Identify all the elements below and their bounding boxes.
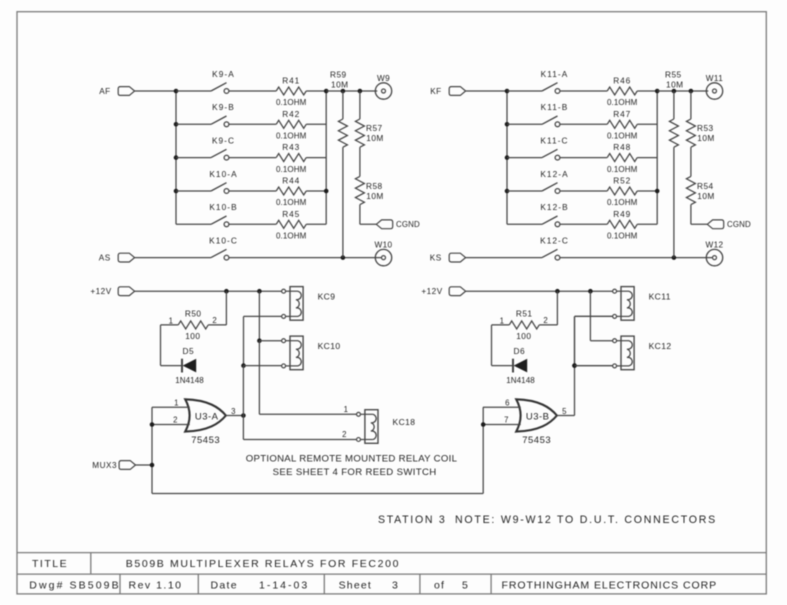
svg-text:W11: W11 <box>706 74 723 83</box>
svg-text:D6: D6 <box>514 346 526 356</box>
svg-text:B509B MULTIPLEXER RELAYS FOR: B509B MULTIPLEXER RELAYS FOR FEC200 <box>126 558 400 570</box>
svg-text:10M: 10M <box>331 79 349 89</box>
svg-text:10M: 10M <box>697 133 715 143</box>
svg-text:K12-B: K12-B <box>540 202 568 212</box>
svg-text:10M: 10M <box>666 79 684 89</box>
svg-text:0.1OHM: 0.1OHM <box>276 165 307 174</box>
svg-text:TITLE: TITLE <box>32 558 68 570</box>
svg-text:0.1OHM: 0.1OHM <box>276 198 307 207</box>
svg-text:R55: R55 <box>665 69 682 79</box>
svg-text:R45: R45 <box>282 209 300 219</box>
svg-text:Date: Date <box>211 579 238 591</box>
svg-text:1-14-03: 1-14-03 <box>259 579 309 591</box>
svg-text:K12-A: K12-A <box>540 169 568 179</box>
svg-text:0.1OHM: 0.1OHM <box>276 132 307 141</box>
svg-text:Rev 1.10: Rev 1.10 <box>129 579 183 591</box>
svg-text:R52: R52 <box>613 176 631 186</box>
svg-text:5: 5 <box>462 579 469 591</box>
svg-text:5: 5 <box>562 407 567 416</box>
svg-text:7: 7 <box>504 416 509 425</box>
svg-text:U3-B: U3-B <box>526 412 550 423</box>
svg-text:R49: R49 <box>613 209 631 219</box>
svg-text:K9-B: K9-B <box>212 102 235 112</box>
svg-text:0.1OHM: 0.1OHM <box>607 165 638 174</box>
svg-text:R57: R57 <box>366 123 383 133</box>
svg-text:FROTHINGHAM ELECTRONICS CORP: FROTHINGHAM ELECTRONICS CORP <box>502 579 718 591</box>
svg-text:2: 2 <box>342 430 347 439</box>
svg-text:+12V: +12V <box>421 287 442 296</box>
svg-text:KC18: KC18 <box>393 417 416 427</box>
svg-text:1N4148: 1N4148 <box>506 376 535 385</box>
svg-text:10M: 10M <box>366 133 384 143</box>
svg-text:R43: R43 <box>282 142 300 152</box>
svg-text:CGND: CGND <box>396 220 420 229</box>
svg-text:2: 2 <box>173 416 178 425</box>
svg-text:3: 3 <box>231 407 236 416</box>
svg-text:R58: R58 <box>366 181 383 191</box>
svg-text:0.1OHM: 0.1OHM <box>276 98 307 107</box>
svg-text:SEE SHEET 4 FOR REED SWITCH: SEE SHEET 4 FOR REED SWITCH <box>273 467 437 478</box>
svg-text:100: 100 <box>516 331 531 341</box>
svg-text:0.1OHM: 0.1OHM <box>607 232 638 241</box>
svg-text:CGND: CGND <box>727 220 751 229</box>
svg-text:OPTIONAL REMOTE MOUNTED RELAY: OPTIONAL REMOTE MOUNTED RELAY COIL <box>246 454 458 465</box>
svg-text:75453: 75453 <box>191 435 220 446</box>
svg-text:1N4148: 1N4148 <box>175 376 204 385</box>
svg-text:KC12: KC12 <box>649 341 672 351</box>
svg-text:1: 1 <box>174 398 179 407</box>
svg-text:STATION 3: STATION 3 <box>378 514 446 526</box>
svg-text:R44: R44 <box>282 176 300 186</box>
svg-text:W12: W12 <box>705 240 723 249</box>
svg-text:0.1OHM: 0.1OHM <box>276 232 307 241</box>
svg-text:100: 100 <box>185 331 200 341</box>
svg-text:2: 2 <box>212 316 217 325</box>
svg-text:1: 1 <box>500 317 505 326</box>
svg-text:KF: KF <box>430 87 441 96</box>
svg-text:10M: 10M <box>697 191 715 201</box>
svg-text:R59: R59 <box>330 69 347 79</box>
svg-text:K11-A: K11-A <box>541 69 569 79</box>
svg-text:AS: AS <box>99 253 111 262</box>
svg-text:+12V: +12V <box>90 287 111 296</box>
svg-text:R42: R42 <box>282 109 300 119</box>
svg-text:10M: 10M <box>366 191 384 201</box>
svg-text:0.1OHM: 0.1OHM <box>607 98 638 107</box>
svg-text:K10-C: K10-C <box>209 235 238 245</box>
svg-text:W9: W9 <box>377 74 390 83</box>
svg-text:75453: 75453 <box>522 435 551 446</box>
svg-text:R53: R53 <box>697 123 714 133</box>
svg-text:R46: R46 <box>613 76 631 86</box>
svg-text:MUX3: MUX3 <box>92 461 117 470</box>
svg-text:R50: R50 <box>185 309 202 319</box>
svg-text:AF: AF <box>99 87 110 96</box>
svg-text:KC10: KC10 <box>318 341 341 351</box>
svg-text:0.1OHM: 0.1OHM <box>607 198 638 207</box>
svg-text:of: of <box>434 579 445 591</box>
svg-text:Dwg# SB509B: Dwg# SB509B <box>29 579 120 591</box>
svg-text:R54: R54 <box>697 181 714 191</box>
svg-text:KC9: KC9 <box>318 291 336 301</box>
svg-text:U3-A: U3-A <box>195 412 219 423</box>
svg-text:K12-C: K12-C <box>540 235 569 245</box>
svg-text:0.1OHM: 0.1OHM <box>607 132 638 141</box>
svg-text:1: 1 <box>344 405 349 414</box>
svg-text:K11-C: K11-C <box>540 135 568 145</box>
svg-text:R48: R48 <box>613 142 631 152</box>
svg-text:NOTE: W9-W12 TO D.U.T. CONNECT: NOTE: W9-W12 TO D.U.T. CONNECTORS <box>455 514 717 526</box>
svg-text:R51: R51 <box>516 309 533 319</box>
svg-text:K10-B: K10-B <box>209 202 237 212</box>
svg-text:KC11: KC11 <box>649 291 671 301</box>
svg-text:K11-B: K11-B <box>541 102 569 112</box>
svg-text:1: 1 <box>169 317 174 326</box>
svg-text:K9-A: K9-A <box>212 69 235 79</box>
svg-text:2: 2 <box>543 316 548 325</box>
svg-text:D5: D5 <box>183 346 195 356</box>
svg-text:KS: KS <box>430 253 442 262</box>
svg-text:K10-A: K10-A <box>209 169 237 179</box>
svg-text:W10: W10 <box>374 240 392 249</box>
svg-text:R47: R47 <box>613 109 631 119</box>
svg-text:Sheet: Sheet <box>339 579 372 591</box>
svg-text:6: 6 <box>505 398 510 407</box>
svg-text:R41: R41 <box>282 76 300 86</box>
svg-text:3: 3 <box>392 579 399 591</box>
svg-text:K9-C: K9-C <box>212 135 235 145</box>
